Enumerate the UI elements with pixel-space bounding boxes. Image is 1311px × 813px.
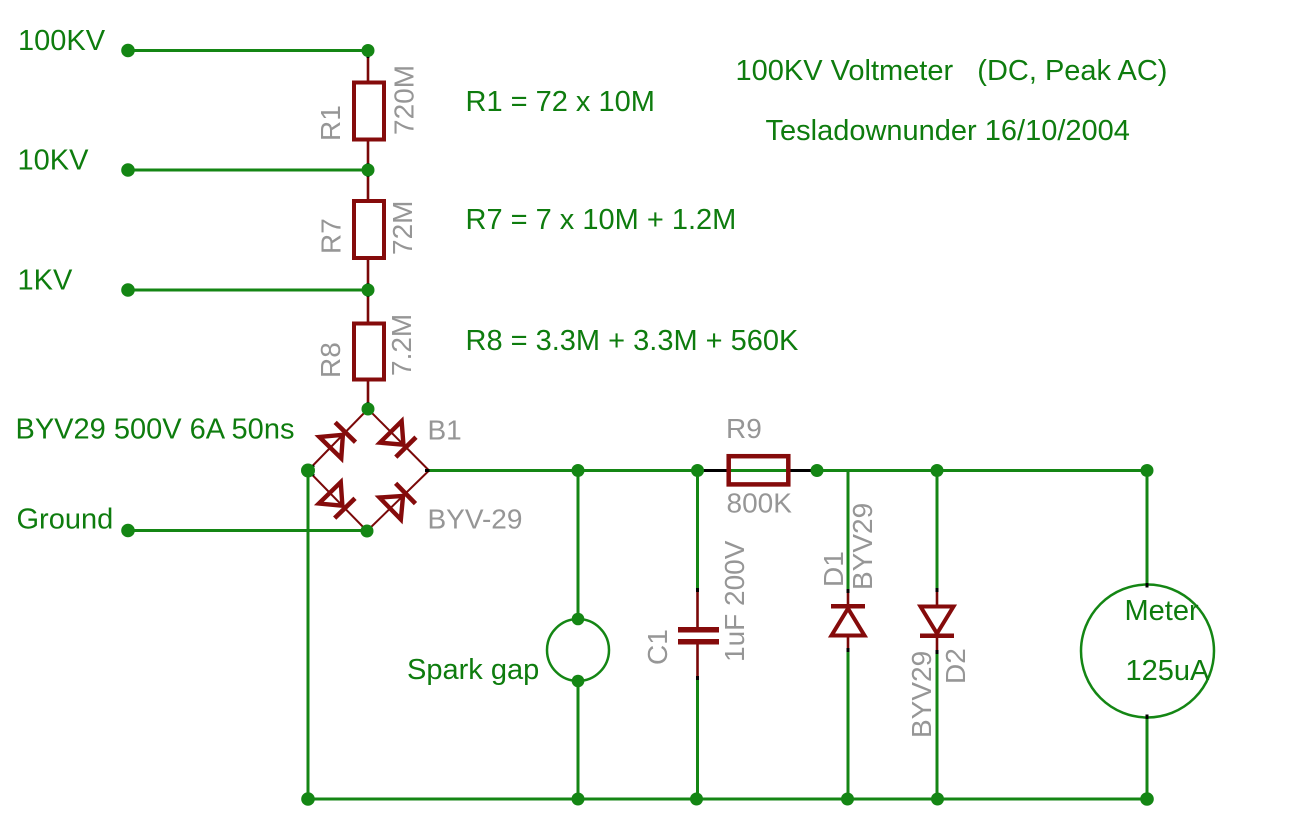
svg-text:BYV-29: BYV-29 [428, 504, 523, 535]
svg-text:Tesladownunder 16/10/2004: Tesladownunder 16/10/2004 [766, 115, 1130, 147]
svg-text:R1: R1 [315, 105, 346, 141]
svg-text:BYV29: BYV29 [847, 503, 878, 590]
svg-text:10KV: 10KV [18, 145, 90, 177]
svg-text:800K: 800K [727, 488, 793, 519]
svg-text:720M: 720M [389, 65, 420, 135]
svg-text:BYV29: BYV29 [906, 651, 937, 738]
svg-text:1uF 200V: 1uF 200V [719, 540, 750, 662]
svg-text:Meter: Meter [1125, 595, 1199, 627]
svg-text:125uA: 125uA [1126, 655, 1211, 687]
svg-text:Ground: Ground [17, 504, 114, 536]
svg-text:100KV Voltmeter (DC, Peak AC: 100KV Voltmeter (DC, Peak AC) [736, 55, 1168, 87]
svg-text:R9: R9 [726, 413, 762, 444]
svg-text:Spark gap: Spark gap [407, 654, 539, 686]
svg-text:R8 = 3.3M + 3.3M + 560K: R8 = 3.3M + 3.3M + 560K [466, 325, 800, 357]
svg-text:D1: D1 [818, 551, 849, 587]
svg-text:100KV: 100KV [18, 25, 106, 57]
svg-text:R7: R7 [316, 218, 347, 254]
svg-text:R1 = 72 x 10M: R1 = 72 x 10M [466, 86, 655, 118]
svg-text:BYV29 500V 6A 50ns: BYV29 500V 6A 50ns [16, 414, 295, 446]
svg-text:72M: 72M [387, 201, 418, 255]
svg-text:1KV: 1KV [18, 265, 73, 297]
svg-text:R7 = 7 x 10M + 1.2M: R7 = 7 x 10M + 1.2M [466, 204, 737, 236]
svg-text:R8: R8 [315, 342, 346, 378]
svg-text:C1: C1 [642, 629, 673, 665]
svg-text:7.2M: 7.2M [386, 314, 417, 376]
svg-text:D2: D2 [940, 648, 971, 684]
svg-text:B1: B1 [428, 415, 462, 446]
